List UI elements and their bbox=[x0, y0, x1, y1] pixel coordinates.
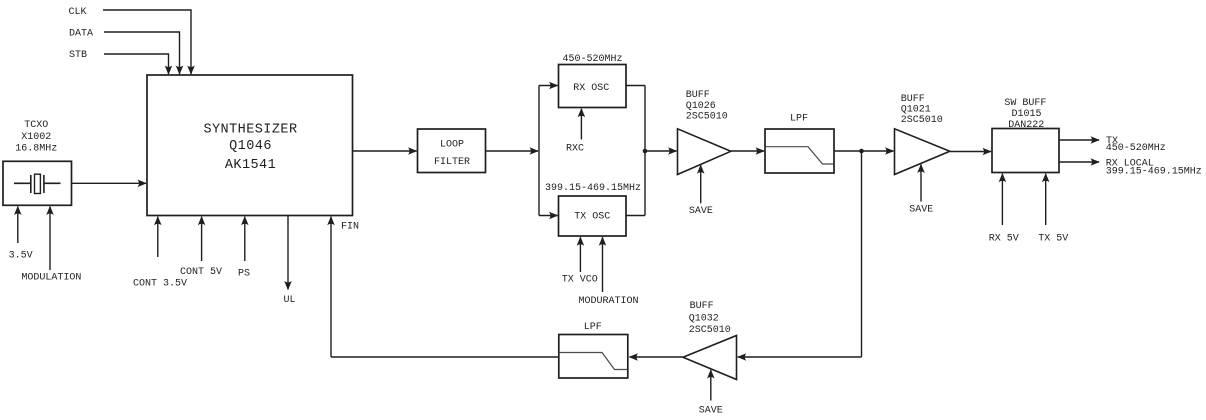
svg-text:UL: UL bbox=[284, 295, 296, 306]
wire CONT 5V bbox=[201, 217, 203, 261]
loop filter bbox=[418, 129, 486, 173]
svg-text:3.5V: 3.5V bbox=[9, 251, 33, 262]
wire oscillator outputs join vertical bbox=[644, 86, 646, 216]
wire buffer Q1026 to LPF bbox=[731, 150, 764, 152]
svg-text:Q1032: Q1032 bbox=[689, 314, 719, 325]
svg-text:DAN222: DAN222 bbox=[1008, 120, 1044, 131]
svg-text:RX 5V: RX 5V bbox=[989, 234, 1019, 245]
wire STB bbox=[104, 54, 169, 74]
svg-text:DATA: DATA bbox=[69, 29, 93, 40]
svg-text:LPF: LPF bbox=[790, 113, 808, 124]
wire junction to buffer Q1026 bbox=[645, 150, 677, 152]
svg-text:450-520MHz: 450-520MHz bbox=[563, 54, 623, 65]
wire buffer Q1032 to LPF2 bbox=[630, 356, 684, 358]
svg-text:2SC5010: 2SC5010 bbox=[901, 115, 943, 126]
wire SAVE to Q1032 bbox=[710, 370, 712, 401]
wire synthesizer to loop filter bbox=[353, 150, 417, 152]
wire loop filter to oscillator split bbox=[486, 150, 539, 152]
svg-text:2SC5010: 2SC5010 bbox=[689, 325, 731, 336]
wire RX OSC output bbox=[626, 85, 645, 87]
wire buffer Q1021 to SW BUFF bbox=[950, 151, 991, 153]
wire MODURATION bbox=[602, 237, 604, 292]
svg-text:TX VCO: TX VCO bbox=[562, 275, 598, 286]
svg-text:LOOP: LOOP bbox=[440, 140, 464, 151]
wire RX LOCAL output bbox=[1059, 161, 1099, 163]
svg-text:MODULATION: MODULATION bbox=[21, 272, 81, 283]
svg-text:399.15-469.15MHz: 399.15-469.15MHz bbox=[1106, 167, 1202, 178]
svg-text:CONT 5V: CONT 5V bbox=[180, 267, 222, 278]
junction dot bbox=[643, 149, 648, 154]
wire FIN feedback up into synthesizer bbox=[330, 217, 332, 357]
svg-text:BUFF: BUFF bbox=[901, 94, 925, 105]
svg-text:FIN: FIN bbox=[341, 221, 359, 232]
buffer Q1032 bbox=[683, 301, 737, 379]
svg-text:BUFF: BUFF bbox=[686, 90, 710, 101]
svg-text:SAVE: SAVE bbox=[909, 205, 933, 216]
svg-text:MODURATION: MODURATION bbox=[579, 296, 639, 307]
svg-text:RX OSC: RX OSC bbox=[573, 83, 609, 94]
svg-text:450-520MHz: 450-520MHz bbox=[1106, 143, 1166, 154]
svg-text:SW BUFF: SW BUFF bbox=[1004, 98, 1046, 109]
svg-text:FILTER: FILTER bbox=[434, 157, 470, 168]
svg-text:TX 5V: TX 5V bbox=[1038, 234, 1068, 245]
svg-text:D1015: D1015 bbox=[1012, 109, 1042, 120]
crystal symbol bbox=[14, 174, 61, 193]
wire TX 5V bbox=[1045, 174, 1047, 225]
wire CONT 3.5V bbox=[157, 217, 159, 257]
svg-text:LPF: LPF bbox=[584, 322, 602, 333]
wire RX 5V bbox=[1001, 174, 1003, 225]
TCXO X1002 bbox=[3, 120, 72, 205]
svg-text:Q1021: Q1021 bbox=[901, 105, 931, 116]
low-pass filter LPF bbox=[765, 113, 834, 173]
wire TX VCO bbox=[579, 237, 581, 272]
svg-text:Q1026: Q1026 bbox=[686, 101, 716, 112]
svg-text:STB: STB bbox=[69, 50, 87, 61]
svg-text:TCXO: TCXO bbox=[24, 120, 48, 131]
wire RXC bbox=[580, 109, 582, 140]
SW BUFF D1015 bbox=[992, 98, 1059, 173]
svg-text:399.15-469.15MHz: 399.15-469.15MHz bbox=[545, 183, 641, 194]
low-pass filter LPF2 bbox=[559, 322, 628, 378]
svg-text:SAVE: SAVE bbox=[699, 406, 723, 417]
svg-text:CONT 3.5V: CONT 3.5V bbox=[133, 279, 187, 290]
svg-text:X1002: X1002 bbox=[21, 132, 51, 143]
wire split to TX OSC bbox=[539, 215, 558, 217]
wire DATA bbox=[104, 32, 180, 74]
svg-text:BUFF: BUFF bbox=[690, 301, 714, 312]
wire LPF output bbox=[834, 150, 862, 152]
wire MODULATION bbox=[49, 207, 51, 271]
wire SAVE to Q1021 bbox=[920, 165, 922, 202]
svg-text:Q1046: Q1046 bbox=[229, 139, 272, 154]
wire TCXO to synthesizer bbox=[72, 182, 147, 184]
junction dot after LPF bbox=[859, 149, 864, 154]
svg-text:2SC5010: 2SC5010 bbox=[686, 112, 728, 123]
TX OSC bbox=[559, 196, 627, 236]
wire SAVE to Q1026 bbox=[700, 165, 702, 203]
svg-text:PS: PS bbox=[238, 268, 250, 279]
buffer Q1021 bbox=[895, 94, 950, 175]
wire feedback down from junction bbox=[861, 151, 863, 357]
wire LPF2 to FIN bbox=[331, 356, 559, 358]
svg-text:RXC: RXC bbox=[566, 143, 584, 154]
svg-text:16.8MHz: 16.8MHz bbox=[15, 144, 57, 155]
wire junction to buffer Q1021 bbox=[862, 150, 894, 152]
wire TX OSC output bbox=[626, 215, 645, 217]
wire TX output bbox=[1059, 139, 1099, 141]
wire CLK bbox=[103, 10, 191, 74]
svg-text:CLK: CLK bbox=[69, 7, 87, 18]
svg-text:TX OSC: TX OSC bbox=[574, 212, 610, 223]
RX OSC bbox=[559, 65, 627, 108]
wire PS bbox=[244, 217, 246, 261]
wire oscillator split vertical bbox=[538, 86, 540, 216]
svg-text:SYNTHESIZER: SYNTHESIZER bbox=[203, 122, 297, 137]
buffer Q1026 bbox=[678, 90, 731, 174]
svg-text:SAVE: SAVE bbox=[689, 206, 713, 217]
synthesizer Q1046 bbox=[147, 75, 353, 216]
wire UL bbox=[287, 216, 289, 290]
svg-text:AK1541: AK1541 bbox=[225, 158, 276, 173]
wire split to RX OSC bbox=[539, 85, 558, 87]
wire 3.5V bbox=[17, 207, 19, 244]
wire feedback bottom to LPF2 bbox=[738, 356, 862, 358]
